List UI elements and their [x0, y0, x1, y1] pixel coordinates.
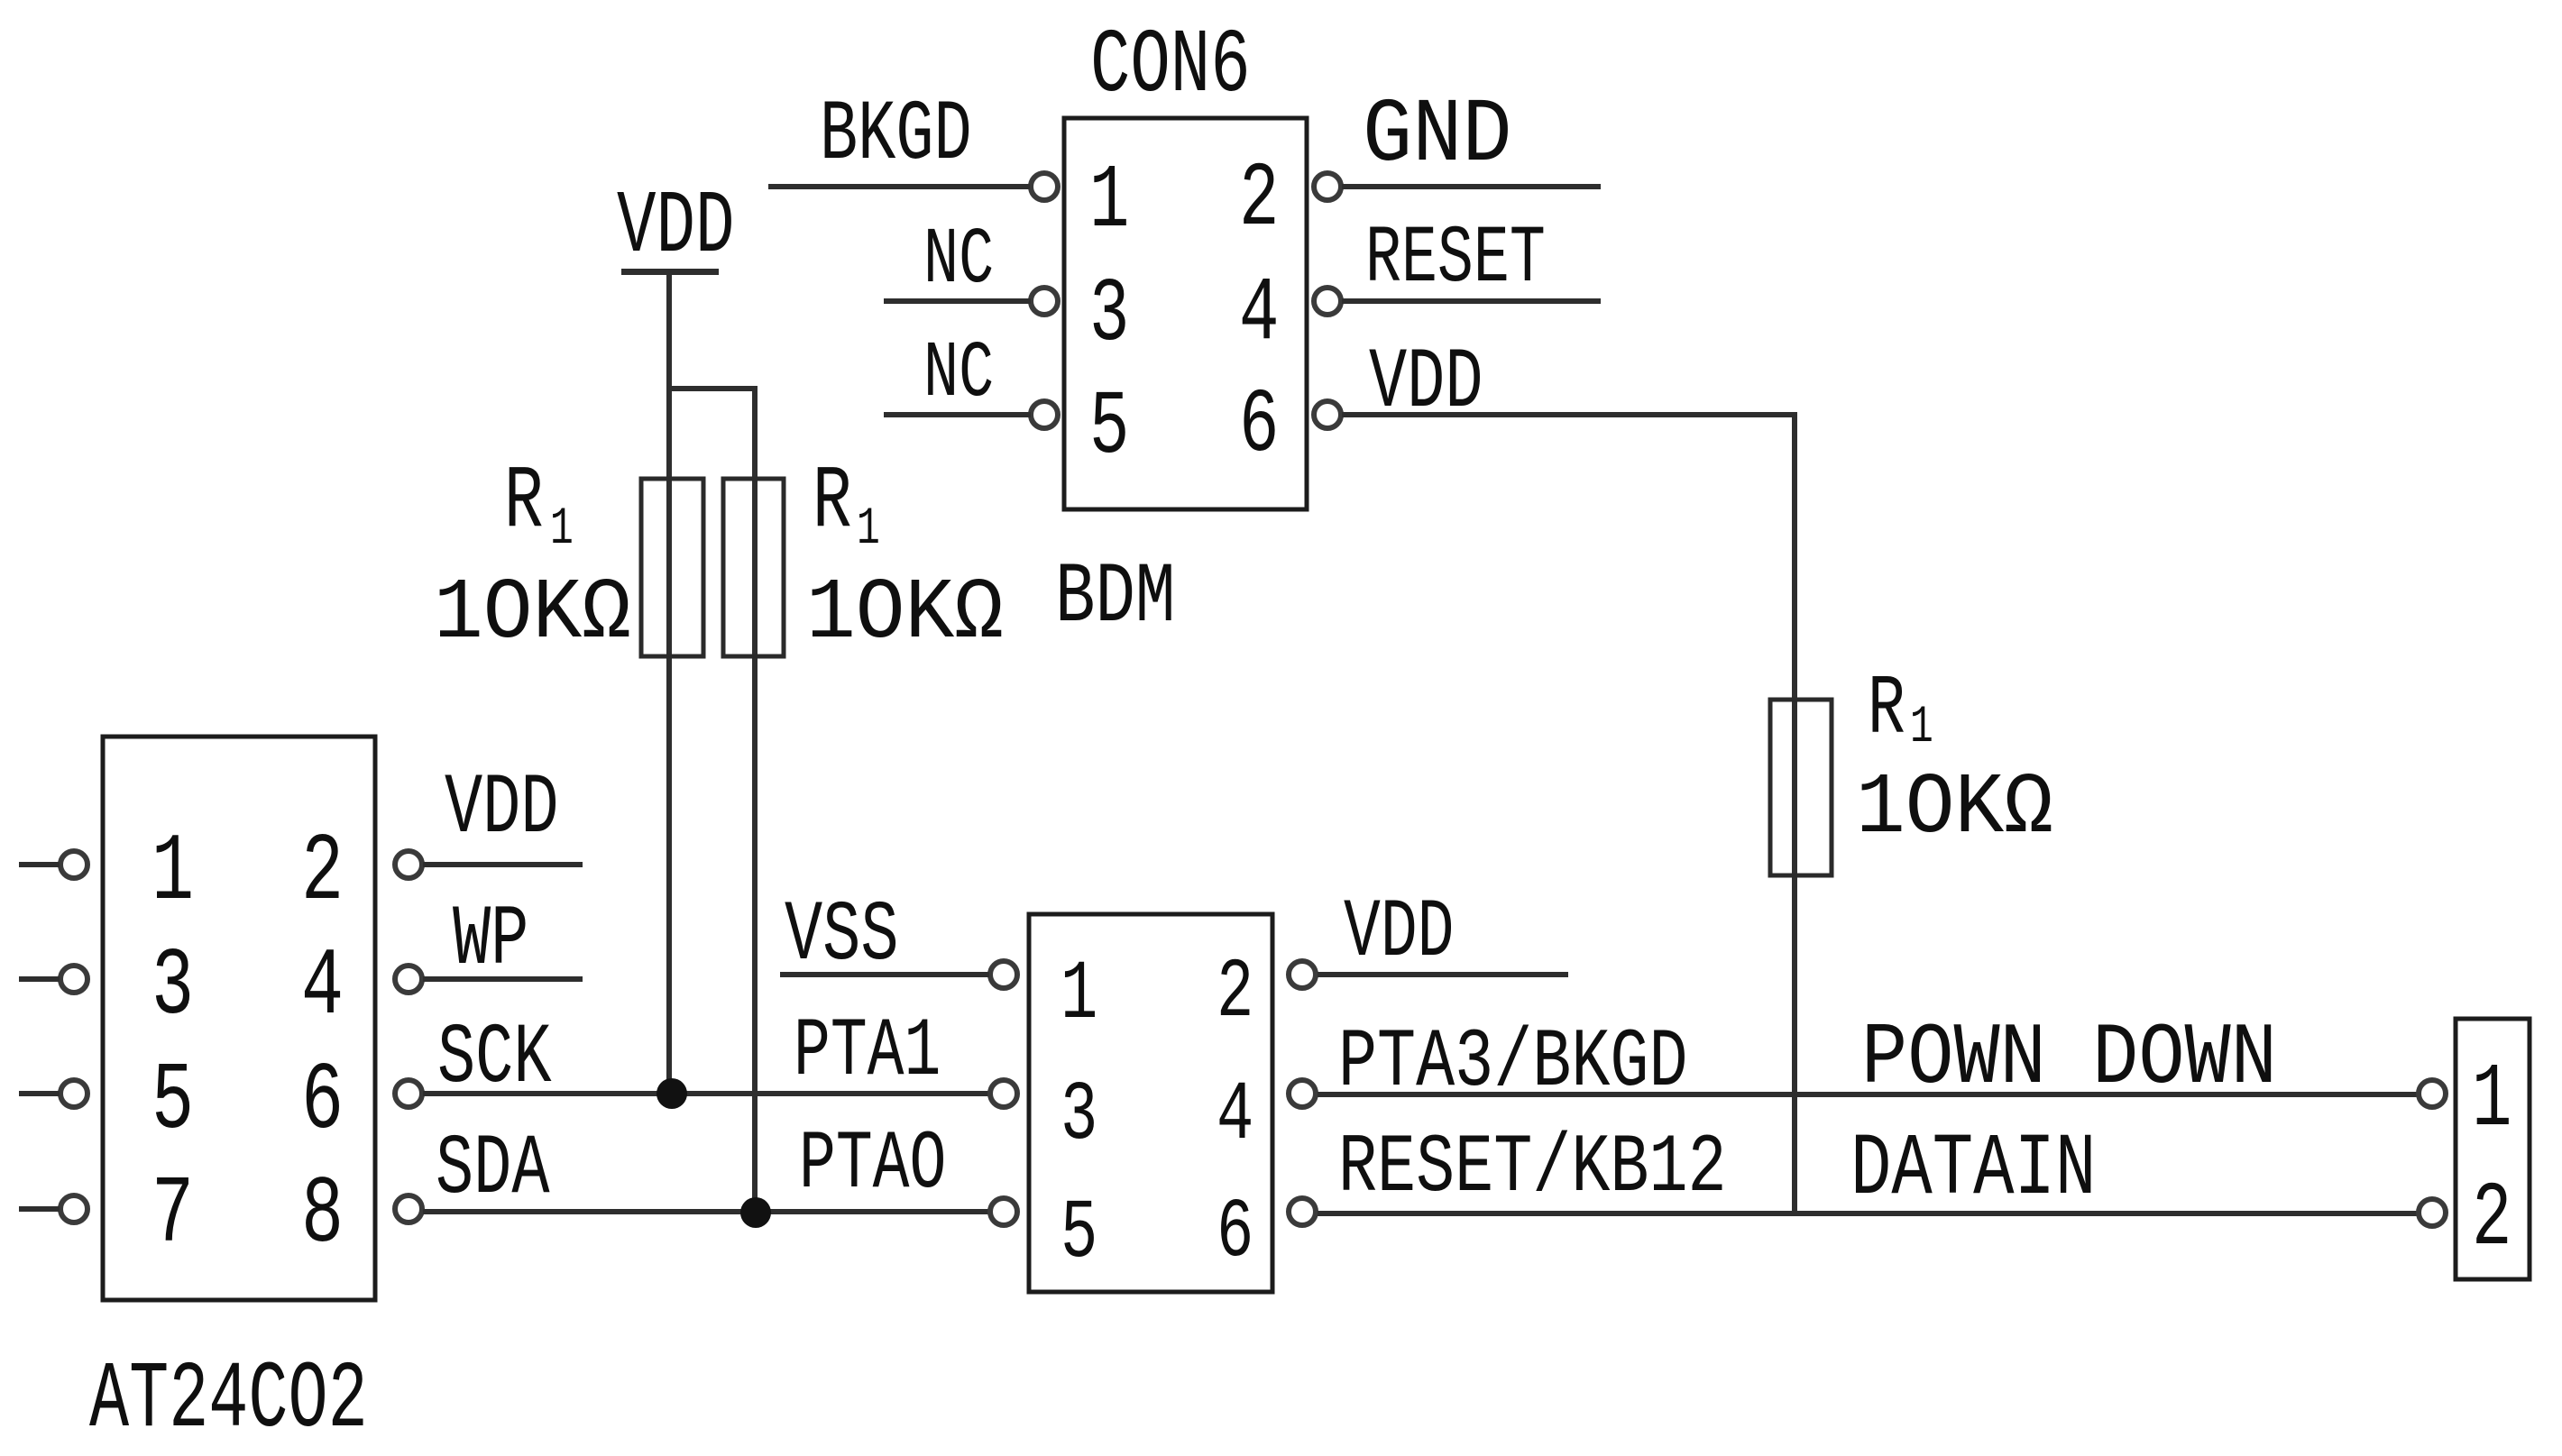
svg-text:5: 5 — [1089, 378, 1129, 480]
svg-text:1: 1 — [152, 818, 194, 927]
svg-text:DATAIN: DATAIN — [1850, 1122, 2096, 1220]
svg-text:3: 3 — [152, 932, 194, 1041]
svg-text:SCK: SCK — [437, 1011, 552, 1108]
BDM pin 4 terminal — [1289, 1080, 1316, 1107]
svg-text:VDD: VDD — [617, 177, 735, 277]
BDM pin 6 terminal — [1289, 1198, 1316, 1225]
AT24C02 pin 7 terminal — [60, 1195, 87, 1222]
AT24C02 pin 5 terminal — [60, 1080, 87, 1107]
svg-text:1OKΩ: 1OKΩ — [806, 565, 1004, 664]
AT24C02 pin 6 terminal — [395, 1080, 422, 1107]
junction dot SCK / R1 left — [657, 1078, 687, 1109]
junction dot SDA / R1 middle — [740, 1197, 771, 1228]
wire GND from CON6 pin 2 — [1342, 184, 1601, 189]
svg-text:VDD: VDD — [1369, 335, 1483, 433]
CON6 pin 1 terminal — [1031, 173, 1058, 200]
connector J1 (2-pin) body — [2456, 1019, 2530, 1279]
svg-text:NC: NC — [923, 216, 994, 306]
BDM pin 3 terminal — [990, 1080, 1017, 1107]
wire BKGD to CON6 pin 1 — [768, 184, 1030, 189]
svg-text:1: 1 — [1061, 948, 1097, 1043]
svg-text:POWN DOWN: POWN DOWN — [1861, 1010, 2277, 1108]
svg-text:1OKΩ: 1OKΩ — [434, 565, 631, 664]
J1 pin 1 terminal — [2419, 1080, 2446, 1107]
svg-text:VDD: VDD — [1344, 887, 1455, 980]
CON6 pin 6 terminal — [1314, 401, 1341, 428]
resistor R1 (right) body — [1770, 700, 1832, 875]
AT24C02 pin 2 terminal — [395, 851, 422, 878]
svg-text:6: 6 — [1239, 376, 1279, 478]
wire VDD from BDM pin 2 — [1318, 972, 1568, 977]
svg-text:7: 7 — [152, 1160, 194, 1269]
AT24C02 pin 4 terminal — [395, 966, 422, 993]
svg-text:4: 4 — [1217, 1068, 1253, 1164]
connector CON6 body — [1064, 118, 1307, 509]
CON6 pin 2 terminal — [1314, 173, 1341, 200]
resistor R1 (left) body — [641, 479, 703, 656]
svg-text:5: 5 — [1061, 1186, 1097, 1282]
AT24C02 pin 1 stub wire — [19, 862, 60, 867]
wire NC to CON6 pin 5 — [884, 412, 1031, 417]
svg-text:3: 3 — [1089, 265, 1129, 367]
AT24C02 pin 5 stub wire — [19, 1091, 60, 1096]
svg-text:1: 1 — [1089, 151, 1129, 253]
svg-text:1: 1 — [550, 500, 574, 559]
svg-text:RESET/KB12: RESET/KB12 — [1338, 1121, 1727, 1215]
VDD power bar — [621, 269, 719, 275]
svg-text:6: 6 — [1217, 1186, 1253, 1281]
svg-text:5: 5 — [152, 1047, 194, 1156]
svg-text:4: 4 — [1239, 264, 1279, 366]
svg-text:6: 6 — [301, 1047, 344, 1156]
wire WP from AT24C02 pin 4 — [423, 976, 583, 982]
AT24C02 pin 3 stub wire — [19, 976, 60, 982]
svg-text:PTA1: PTA1 — [794, 1006, 941, 1099]
wire VSS to BDM pin 1 — [780, 972, 989, 977]
wire POWN DOWN net from BDM pin 4 to connector pin 1 — [1318, 1092, 2418, 1097]
wire SCK net from AT24C02 pin 6 to BDM pin 3 — [423, 1091, 990, 1096]
J1 pin 2 terminal — [2419, 1199, 2446, 1226]
svg-text:BKGD: BKGD — [820, 87, 972, 185]
AT24C02 pin 3 terminal — [60, 966, 87, 993]
AT24C02 pin 7 stub wire — [19, 1206, 60, 1212]
wire SDA net from AT24C02 pin 8 to BDM pin 5 — [423, 1209, 990, 1214]
svg-text:1: 1 — [857, 500, 880, 559]
resistor R1 (middle) body — [723, 479, 784, 656]
svg-text:2: 2 — [1239, 150, 1279, 252]
svg-text:R: R — [1868, 662, 1905, 758]
wire VDD from AT24C02 pin 2 — [423, 862, 583, 867]
wire VDD symbol vertical down to SCK net — [666, 273, 672, 1094]
svg-text:SDA: SDA — [436, 1122, 550, 1219]
svg-text:1: 1 — [1910, 699, 1933, 757]
svg-text:PTAO: PTAO — [799, 1119, 946, 1212]
svg-text:8: 8 — [301, 1160, 344, 1269]
wire NC to CON6 pin 3 — [884, 298, 1031, 304]
svg-text:2: 2 — [1217, 946, 1253, 1041]
wire RESET from CON6 pin 4 — [1342, 298, 1601, 304]
wire VDD branch vertical down to SDA net — [752, 386, 758, 1213]
svg-text:GND: GND — [1363, 85, 1512, 187]
svg-text:3: 3 — [1061, 1068, 1097, 1164]
svg-text:4: 4 — [301, 932, 344, 1041]
svg-text:CON6: CON6 — [1090, 16, 1251, 118]
svg-text:NC: NC — [923, 330, 994, 419]
connector BDM body — [1029, 914, 1272, 1292]
svg-text:R: R — [504, 452, 544, 552]
svg-text:2: 2 — [301, 818, 344, 927]
svg-text:RESET: RESET — [1365, 213, 1546, 305]
svg-text:VDD: VDD — [445, 761, 559, 858]
IC AT24C02 body — [103, 737, 375, 1300]
wire VDD vertical down to resistor R1 right and DATAIN net — [1792, 412, 1797, 1213]
BDM pin 1 terminal — [990, 961, 1017, 988]
svg-text:R: R — [813, 452, 852, 552]
CON6 pin 3 terminal — [1031, 288, 1058, 315]
svg-text:VSS: VSS — [785, 888, 899, 985]
wire DATAIN net from BDM pin 6 to connector pin 2 — [1318, 1211, 2418, 1216]
svg-text:2: 2 — [2472, 1169, 2511, 1271]
CON6 pin 4 terminal — [1314, 288, 1341, 315]
svg-text:BDM: BDM — [1055, 549, 1175, 646]
wire VDD branch horizontal — [666, 386, 758, 391]
wire VDD from CON6 pin 6 horizontal — [1342, 412, 1796, 417]
BDM pin 5 terminal — [990, 1198, 1017, 1225]
CON6 pin 5 terminal — [1031, 401, 1058, 428]
AT24C02 pin 8 terminal — [395, 1195, 422, 1222]
svg-text:AT24CO2: AT24CO2 — [89, 1348, 368, 1454]
svg-text:WP: WP — [453, 893, 528, 990]
svg-text:1: 1 — [2472, 1050, 2511, 1152]
svg-text:1OKΩ: 1OKΩ — [1856, 760, 2053, 858]
BDM pin 2 terminal — [1289, 961, 1316, 988]
AT24C02 pin 1 terminal — [60, 851, 87, 878]
